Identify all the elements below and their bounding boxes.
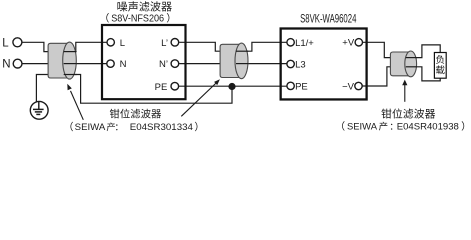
label 钳位滤波器 left: [110, 109, 120, 119]
svg-text:PE: PE: [155, 82, 168, 93]
load box 负载: [434, 53, 446, 79]
terminal circle: filter N: [107, 60, 114, 67]
svg-text:N’: N’: [159, 59, 168, 70]
svg-text:L’: L’: [161, 38, 168, 49]
svg-text:N: N: [2, 59, 10, 71]
terminal circle: S8VK L3: [287, 60, 294, 67]
wire PE link: noise filter PE to S8VK PE through junction: [179, 85, 287, 87]
wire L' : noise filter L' to S8VK L1/+, jogging through clamp core 2: [179, 42, 287, 51]
label (SEIWA 产：E04SR401938) right: [342, 121, 345, 131]
terminal circle: input L: [13, 38, 22, 47]
terminal circle: filter PE: [171, 82, 179, 90]
label (SEIWA 产：E04SR301334) left: [70, 122, 73, 132]
svg-text:E04SR301334: E04SR301334: [130, 122, 194, 133]
svg-text:L3: L3: [295, 60, 306, 71]
svg-text:N: N: [120, 59, 127, 70]
svg-text:+V: +V: [342, 38, 355, 49]
svg-text:PE: PE: [295, 81, 308, 92]
pointer arrow to clamp core 2: [181, 83, 216, 117]
svg-text:S8VK-WA96024: S8VK-WA96024: [300, 12, 357, 25]
terminal circle: filter L': [171, 39, 179, 47]
wire PE: ground up, through core 1, down, under box to junction: [36, 75, 232, 104]
svg-text:L: L: [120, 38, 125, 49]
terminal circle: S8VK -V: [355, 82, 362, 89]
svg-text:L1/+: L1/+: [295, 38, 314, 49]
wire N input: N terminal straight through clamp core 1 to noise filter N: [22, 63, 107, 65]
terminal circle: S8VK L1/+: [287, 39, 294, 46]
wire -V: S8VK -V through clamp core 3 to load bottom: [362, 67, 440, 86]
svg-text:SEIWA: SEIWA: [75, 122, 106, 133]
wire N' : noise filter N' straight through core 2 to S8VK L3: [179, 63, 287, 65]
clamp filter core 1 (ferrite cylinder on input wires): [48, 43, 69, 78]
wire +V: S8VK +V through clamp core 3 to load top: [362, 42, 440, 57]
terminal circle: filter N': [171, 60, 179, 68]
svg-text:L: L: [2, 37, 9, 49]
svg-text:S8V-NFS206: S8V-NFS206: [111, 13, 164, 24]
svg-text:SEIWA: SEIWA: [347, 121, 378, 132]
pointer arrow to clamp core 1: [71, 91, 84, 120]
svg-text:−V: −V: [342, 81, 355, 92]
label (S8V-NFS206): [106, 13, 109, 23]
pointer arrow to clamp core 3: [404, 85, 406, 102]
protective earth ground symbol: [30, 101, 48, 119]
label 噪声滤波器 (noise filter): [117, 2, 127, 12]
label 钳位滤波器 right: [381, 109, 391, 119]
svg-text:E04SR401938: E04SR401938: [397, 122, 459, 133]
terminal circle: S8VK +V: [355, 39, 362, 46]
wire L input: L terminal to noise filter L, jogging through clamp core 1: [22, 42, 107, 51]
noise filter box S8V-NFS206: [102, 25, 186, 99]
junction dot on PE net: [228, 83, 235, 90]
S8VK-WA96024 power supply box: [281, 29, 367, 100]
clamp filter core 2 (ferrite cylinder between filter and S8VK): [220, 44, 241, 77]
clamp filter core 3 (ferrite cylinder on DC output): [390, 52, 410, 76]
terminal circle: filter L: [107, 39, 114, 46]
terminal circle: S8VK PE: [287, 82, 294, 89]
terminal circle: input N: [13, 59, 22, 68]
